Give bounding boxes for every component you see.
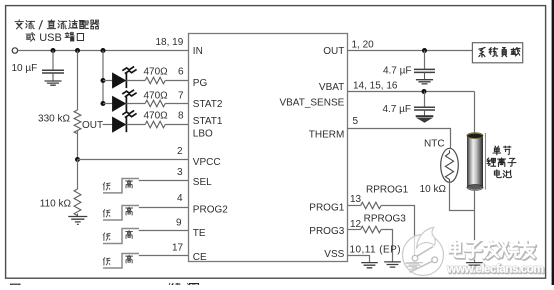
svg-text:PG: PG: [193, 78, 208, 89]
svg-text:4: 4: [177, 193, 183, 204]
svg-text:TE: TE: [193, 228, 206, 239]
op-amp U1 charger IC body: [189, 34, 348, 262]
svg-text:3: 3: [177, 167, 183, 178]
wire: VBAT pin to battery branch: [348, 91, 475, 93]
resistor R3 470 ohm: [145, 121, 165, 128]
svg-text:4.7 µF: 4.7 µF: [382, 104, 411, 115]
node: junction dot VBAT/C2: [422, 89, 427, 94]
node: LED1 anode junction dot: [101, 78, 106, 83]
watermark: 电子发烧友 text: [450, 241, 535, 259]
resistor 330k (vertical zigzag): [74, 110, 81, 134]
wire: TE switch to TE pin: [139, 230, 189, 232]
resistor R2 470 ohm: [145, 100, 165, 107]
resistor RPROG1: [361, 202, 381, 209]
wire: C1 to ground: [424, 72, 426, 79]
node: junction dot OUT/C1: [422, 48, 427, 53]
svg-text:STAT1: STAT1: [193, 116, 223, 127]
logic level switch for CE (low/high): [103, 254, 139, 269]
svg-text:470Ω: 470Ω: [144, 67, 169, 78]
wire: PROG2 switch to PROG2 pin: [139, 207, 189, 209]
wire: OUT node down to C1: [424, 51, 426, 70]
wire: VPCC node to VPCC pin: [78, 159, 190, 161]
svg-text:8: 8: [178, 111, 184, 122]
svg-text:18, 19: 18, 19: [156, 37, 184, 48]
ground at RPROG1: [406, 263, 423, 268]
svg-text:RPROG3: RPROG3: [364, 214, 407, 225]
resistor RPROG3: [361, 226, 381, 233]
logic level switch for PROG2 (low/high): [103, 206, 139, 221]
wire: 330k bottom to VPCC node: [77, 130, 79, 160]
svg-text:OUT: OUT: [82, 120, 103, 131]
wire: VBAT branch down to battery positive: [474, 92, 476, 135]
svg-text:PROG3: PROG3: [309, 226, 344, 237]
wire: OUT label to LED3 anode: [103, 124, 113, 126]
ground at C1: [416, 80, 433, 84]
battery side bar: [485, 133, 487, 190]
wire: R1 to PG pin: [165, 80, 189, 82]
capacitor C_IN 10uF plates: [42, 70, 64, 73]
watermark: elecfans logo circle: [403, 227, 444, 275]
capacitor C2 4.7uF plates: [414, 107, 435, 110]
wire: R3 to STAT1 pin: [165, 124, 189, 126]
svg-text:RPROG1: RPROG1: [366, 184, 409, 195]
svg-text:CE: CE: [193, 252, 207, 263]
wire: VSS pin to ground: [348, 256, 370, 263]
svg-text:10,11 (EP): 10,11 (EP): [350, 245, 402, 256]
logic level switch for TE (low/high): [103, 229, 139, 244]
figure caption cut-off: （续）图: [169, 283, 170, 290]
svg-text:7: 7: [178, 90, 184, 101]
svg-text:IN: IN: [193, 46, 203, 57]
wire: CE switch to CE pin: [139, 255, 189, 257]
LED D2 (STAT2): [103, 90, 145, 112]
svg-text:STAT2: STAT2: [193, 99, 223, 110]
logic level switch for SEL (low/high): [103, 179, 139, 193]
svg-text:17: 17: [172, 242, 184, 253]
figure caption cut-off at bottom: 图: [11, 284, 20, 290]
wire: OUT pin to system load: [348, 50, 473, 52]
wire: VPCC node down to 110k: [77, 160, 79, 190]
node: junction dot at LED branch: [101, 48, 106, 53]
wire: RPROG1 to ground: [381, 206, 414, 263]
node: LED2 anode junction dot: [101, 101, 106, 106]
wire: LED branch vertical feed: [102, 51, 104, 104]
svg-text:6: 6: [178, 67, 184, 78]
battery BT1 single-cell Li-Ion cylinder: [467, 133, 483, 191]
svg-text:VBAT: VBAT: [319, 82, 344, 93]
svg-text:5: 5: [353, 116, 359, 127]
svg-text:PROG2: PROG2: [193, 204, 228, 215]
wire: rail to 10uF top plate: [52, 51, 54, 71]
wire: input rail to IN pin: [18, 50, 189, 52]
resistor R1 470 ohm: [145, 77, 165, 84]
wire: C2 to ground: [424, 110, 426, 116]
svg-text:470Ω: 470Ω: [144, 111, 169, 122]
input terminal (open circle): [12, 48, 17, 53]
LED D1 (PG): [103, 66, 145, 88]
wire: PROG3 pin to RPROG3: [348, 229, 361, 231]
svg-text:VPCC: VPCC: [193, 157, 221, 168]
svg-text:14, 15, 16: 14, 15, 16: [353, 80, 398, 91]
LED D3 (STAT1): [112, 110, 145, 132]
svg-text:4.7 µF: 4.7 µF: [383, 66, 412, 77]
ground at battery negative: [466, 263, 483, 268]
label: AC/DC adapter or USB port (交流 / 直流适配器 或 USB 端口): [15, 20, 99, 41]
svg-text:10 kΩ: 10 kΩ: [420, 184, 447, 195]
svg-text:NTC: NTC: [424, 138, 445, 149]
thermistor NTC (ellipse with zigzag): [441, 148, 459, 182]
wire: PROG1 pin to RPROG1: [348, 205, 361, 207]
svg-text:SEL: SEL: [193, 177, 212, 188]
ground at 110k: [68, 217, 87, 225]
node: junction dot at 330k divider: [75, 48, 80, 53]
ground at VSS: [361, 263, 378, 268]
svg-text:LBO: LBO: [193, 128, 213, 139]
wire: 10uF bottom plate to ground: [52, 73, 54, 81]
svg-text:2: 2: [177, 146, 183, 157]
svg-text:1, 20: 1, 20: [352, 39, 375, 50]
wire: battery negative down to ground: [474, 190, 476, 262]
svg-text:PROG1: PROG1: [309, 202, 344, 213]
wire: NTC bottom to battery negative: [450, 182, 475, 210]
svg-text:www.elecfans.com: www.elecfans.com: [446, 262, 544, 276]
node: VPCC junction dot: [75, 157, 80, 162]
node: junction dot at 10uF cap: [51, 48, 56, 53]
ground at C2 (solid triangle style): [416, 115, 434, 117]
ground at RPROG3: [384, 262, 401, 267]
svg-text:THERM: THERM: [309, 129, 345, 140]
svg-text:110 kΩ: 110 kΩ: [40, 198, 72, 209]
svg-text:12: 12: [350, 219, 362, 230]
right edge black strip: [552, 0, 554, 285]
wire: RPROG3 to ground: [381, 230, 392, 262]
wire: VBAT node down to C2: [424, 92, 426, 108]
ground at 10uF: [45, 81, 62, 85]
svg-text:9: 9: [176, 218, 182, 229]
wire: 110k to ground: [77, 214, 79, 217]
system load box (系统负载): [472, 43, 522, 63]
svg-text:VBAT_SENSE: VBAT_SENSE: [279, 97, 344, 108]
svg-text:13: 13: [350, 194, 362, 205]
svg-text:VSS: VSS: [324, 249, 344, 260]
capacitor C1 4.7uF plates: [414, 69, 435, 72]
wire: R2 to STAT2 pin: [165, 103, 189, 105]
resistor 110k (vertical zigzag): [74, 189, 81, 216]
svg-text:330 kΩ: 330 kΩ: [38, 114, 70, 125]
wire: THERM pin to NTC: [348, 129, 451, 149]
wire: rail down to 330k resistor: [77, 51, 79, 111]
wire: SEL switch to SEL pin: [139, 180, 189, 182]
battery label 单节锂离子电池: [487, 146, 516, 178]
svg-text:OUT: OUT: [323, 46, 344, 57]
svg-text:USB: USB: [39, 32, 62, 44]
svg-text:10 µF: 10 µF: [12, 63, 38, 74]
